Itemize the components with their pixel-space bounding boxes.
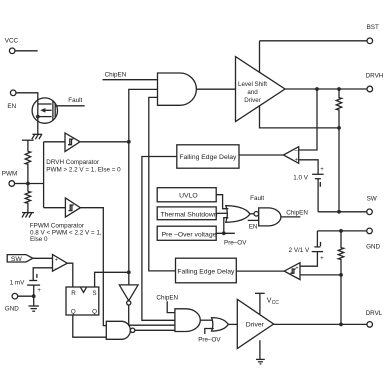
wire inverter out to bottom AND	[129, 305, 175, 325]
and-gate U2 (DRVH enable)	[158, 73, 197, 105]
inverter U6	[119, 285, 138, 305]
terminal BST	[367, 24, 379, 44]
svg-text:VCC: VCC	[5, 38, 19, 45]
resistor PWM pull-down	[25, 192, 30, 205]
and-gate U8 (DRVL enable)	[175, 309, 200, 332]
wire BST tap	[259, 41, 261, 73]
svg-text:GND: GND	[5, 305, 19, 312]
junction DRVH comp out	[127, 140, 131, 144]
terminal DRVH	[366, 73, 384, 92]
wire 1.0V comp + input	[299, 160, 318, 175]
svg-text:Level Shift: Level Shift	[238, 81, 267, 88]
svg-text:Pre–OV: Pre–OV	[224, 239, 247, 246]
wire DRVH comp to top AND	[129, 89, 158, 285]
wire Fault (gate)	[55, 97, 84, 106]
wire U9 out to driver	[228, 323, 237, 325]
terminal GND (right)	[366, 228, 380, 251]
wire ChipEN out	[281, 209, 308, 217]
wire upper delay output to bottom AND	[142, 157, 177, 321]
svg-text:1.0 V: 1.0 V	[293, 174, 309, 181]
junction SW tap	[337, 126, 341, 130]
wire GND rail	[317, 230, 366, 232]
svg-text:1 mV: 1 mV	[10, 279, 25, 286]
svg-text:+: +	[295, 158, 299, 164]
wire 1.0V comp output to delay	[239, 154, 283, 156]
svg-text:+: +	[320, 256, 324, 262]
wire 2V comp - input	[300, 274, 341, 276]
wire PWM node	[27, 166, 29, 192]
box pre-over voltage	[157, 226, 216, 240]
wire PWM to comparators	[28, 142, 66, 208]
wire SW tap from driver	[260, 105, 340, 128]
svg-text:Fault: Fault	[68, 97, 82, 104]
svg-text:DRVH: DRVH	[366, 73, 384, 80]
svg-text:EN: EN	[7, 103, 16, 110]
op-amp SW zero-cross comparator	[53, 255, 68, 272]
ground (chassis) under PWM divider	[22, 213, 34, 218]
junction DRVL rail	[339, 323, 343, 327]
ground (earth) under driver	[256, 340, 265, 364]
wire DRVL falling-delay to top AND	[149, 97, 176, 271]
transistor Q1 fault pulldown	[32, 98, 57, 123]
wire pre-OV to NOR and stub	[216, 218, 247, 247]
svg-text:PWM > 2.2 V = 1, Else = 0: PWM > 2.2 V = 1, Else = 0	[46, 167, 121, 174]
svg-text:Falling Edge Delay: Falling Edge Delay	[179, 154, 237, 161]
svg-text:EN: EN	[249, 223, 258, 230]
junction DRVH-comparator branch	[315, 87, 319, 91]
wire latch S input	[95, 272, 129, 287]
svg-text:Falling Edge Delay: Falling Edge Delay	[177, 269, 235, 276]
svg-text:Thermal Shutdown: Thermal Shutdown	[160, 211, 217, 218]
svg-text:SW: SW	[11, 256, 23, 263]
op-amp DRVH comparator	[46, 133, 121, 174]
wire DRVH sense down	[299, 89, 317, 150]
svg-text:Driver: Driver	[246, 322, 265, 329]
svg-text:CC: CC	[272, 300, 280, 306]
svg-text:and: and	[247, 89, 258, 96]
box thermal shutdown	[157, 207, 218, 220]
terminal SW	[367, 196, 377, 215]
wire BST	[260, 40, 368, 42]
svg-text:+: +	[55, 258, 58, 264]
junction SW rail	[337, 210, 341, 214]
svg-text:GND: GND	[366, 244, 380, 251]
wire GND	[18, 295, 34, 297]
wire to ground	[27, 204, 29, 213]
wire FPWM comparator output to NAND	[80, 208, 106, 326]
terminal VCC	[5, 38, 19, 54]
node internal pull-up bar	[22, 140, 34, 151]
junction GND-battery	[32, 294, 36, 298]
svg-text:Q: Q	[92, 309, 97, 316]
driver U10 DRVL	[237, 299, 273, 348]
latch RS	[66, 287, 99, 316]
wire ChipEN to bottom AND	[156, 295, 178, 313]
or-gate U9 (pre-OV OR)	[212, 318, 229, 332]
wire pre-OV stub	[198, 329, 221, 344]
svg-text:Pre –Over voltage: Pre –Over voltage	[162, 231, 217, 238]
wire PWM	[15, 183, 28, 185]
terminal DRVL	[366, 310, 383, 327]
svg-text:2 V/1 V: 2 V/1 V	[289, 247, 310, 254]
svg-text:ChipEN: ChipEN	[156, 295, 178, 302]
svg-text:ChipEN: ChipEN	[286, 209, 308, 216]
svg-text:R: R	[71, 290, 76, 297]
wire battery to GND	[33, 285, 35, 306]
ground (earth) under 1mV	[29, 306, 39, 311]
wire NAND out to bottom AND	[135, 329, 175, 331]
svg-text:UVLO: UVLO	[179, 192, 198, 199]
wire battery to SW rail	[317, 179, 319, 212]
junction PWM node	[26, 182, 30, 186]
wire 2V comp output to delay	[236, 270, 284, 272]
wire DRVL sense down	[340, 275, 342, 325]
ground (chassis) under Q1	[32, 134, 42, 139]
box falling edge delay (lower)	[176, 258, 237, 283]
op-amp FPWM comparator	[30, 198, 102, 243]
svg-text:PWM: PWM	[2, 170, 17, 177]
wire DRVH comparator output	[80, 141, 129, 143]
svg-text:Fault: Fault	[250, 195, 264, 202]
svg-text:SW: SW	[367, 196, 377, 203]
junction S branch	[127, 270, 131, 274]
junction Q1 source	[36, 115, 40, 119]
node SW tag	[7, 255, 33, 264]
wire comp out to latch R	[67, 263, 73, 287]
svg-text:BST: BST	[367, 24, 379, 31]
junction GND rail	[339, 229, 343, 233]
wire SW tag to comparator	[33, 257, 53, 259]
wire EN stub	[248, 220, 259, 230]
wire SW rail down	[338, 128, 340, 212]
resistor DRVH-SW	[336, 89, 341, 128]
box falling edge delay (upper)	[177, 145, 239, 168]
wire DRVL rail	[274, 323, 367, 325]
wire UVLO to NOR	[216, 195, 228, 209]
wire DRVH rail	[285, 88, 367, 90]
or-gate U4 fault OR	[226, 206, 250, 223]
driver U3 level shift	[236, 57, 286, 122]
wire comp - input to battery	[33, 268, 52, 281]
svg-text:Driver: Driver	[244, 97, 261, 104]
svg-text:S: S	[92, 290, 96, 297]
svg-text:Q: Q	[71, 309, 76, 316]
resistor PWM pull-up	[25, 152, 30, 166]
and-gate U5 ChipEN	[259, 208, 281, 226]
battery 2V/1V	[289, 231, 325, 266]
box UVLO	[157, 188, 216, 202]
op-amp 2V/1V comparator	[284, 263, 300, 280]
svg-text:ChipEN: ChipEN	[105, 72, 127, 79]
bubble NOR	[254, 212, 259, 217]
terminal EN	[7, 90, 16, 110]
junction DRVL sense	[339, 273, 343, 277]
battery 1 mV	[10, 274, 42, 294]
wire latch Q to NAND	[73, 315, 107, 337]
nand-gate U7	[106, 321, 135, 339]
svg-text:DRVH Comparator: DRVH Comparator	[46, 159, 99, 166]
battery 1.0 V	[293, 167, 324, 187]
svg-text:Pre–OV: Pre–OV	[198, 337, 221, 344]
node VCC supply bar	[255, 293, 279, 314]
svg-text:DRVL: DRVL	[366, 310, 383, 317]
svg-text:+: +	[295, 265, 298, 271]
wire EN	[16, 93, 38, 135]
svg-text:+: +	[37, 288, 41, 294]
wire U2 out to level shift	[196, 88, 235, 90]
terminal PWM	[2, 170, 17, 186]
wire U8 out	[200, 319, 213, 321]
wire VCC	[15, 50, 38, 52]
wire ChipEN to top AND	[103, 72, 158, 80]
junction DRVH-resistor branch	[337, 87, 341, 91]
svg-text:Else 0: Else 0	[30, 236, 48, 243]
op-amp 1.0V comparator	[283, 147, 298, 164]
wire thermal to NOR	[216, 212, 227, 214]
junction pre-OV	[222, 231, 226, 235]
resistor GND-DRVL	[338, 231, 343, 275]
svg-text:+: +	[320, 167, 324, 173]
terminal GND (left)	[5, 293, 19, 312]
wire SW rail	[318, 211, 367, 213]
wire NOR out	[250, 213, 254, 215]
